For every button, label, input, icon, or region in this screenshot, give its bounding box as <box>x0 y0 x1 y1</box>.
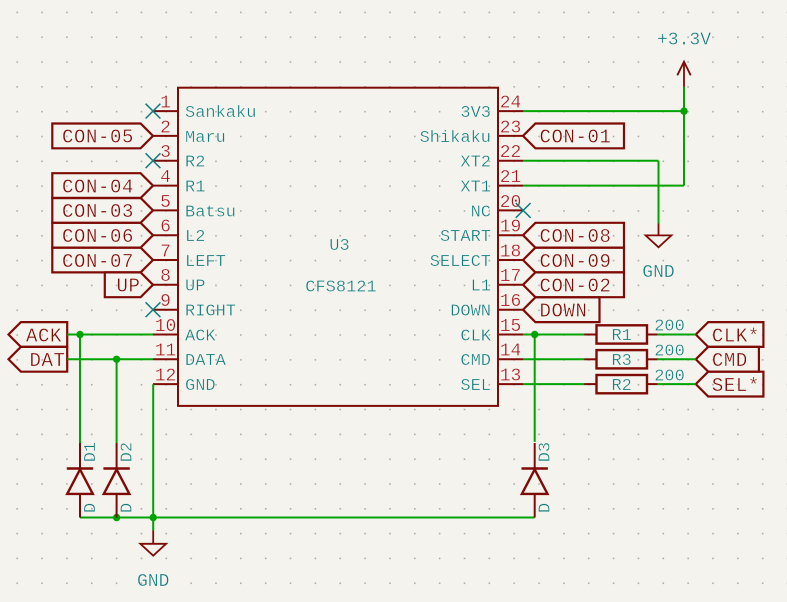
svg-text:4: 4 <box>160 168 171 188</box>
svg-text:GND: GND <box>642 263 674 283</box>
pin 19 (START) <box>440 218 523 248</box>
pin 23 (Shikaku) <box>420 118 523 148</box>
svg-text:21: 21 <box>500 168 522 188</box>
svg-text:R2: R2 <box>611 377 631 396</box>
no-connect pin 1 <box>146 104 161 119</box>
svg-text:L2: L2 <box>185 228 205 247</box>
wire R3 to CMD <box>657 358 696 360</box>
svg-text:7: 7 <box>160 242 171 262</box>
wire R2 to SEL* <box>657 383 696 385</box>
wire XT1 <box>523 185 684 187</box>
svg-text:Maru: Maru <box>185 129 226 148</box>
svg-text:GND: GND <box>185 377 216 396</box>
svg-text:200: 200 <box>654 343 685 362</box>
svg-text:CON-05: CON-05 <box>62 127 134 149</box>
svg-text:18: 18 <box>500 242 522 262</box>
pin 22 (XT2) <box>460 143 523 173</box>
global label CON-09 <box>523 248 624 273</box>
svg-text:D1: D1 <box>82 442 101 462</box>
svg-text:R1: R1 <box>185 179 205 198</box>
svg-text:17: 17 <box>500 267 522 287</box>
pin 16 (DOWN) <box>450 292 523 322</box>
wire CMD to R3 <box>523 358 585 360</box>
diode D2 <box>103 442 137 518</box>
diode D1 <box>67 442 101 518</box>
svg-text:1: 1 <box>160 94 171 114</box>
svg-text:CON-04: CON-04 <box>62 176 134 198</box>
svg-text:D: D <box>537 503 556 513</box>
wire GND stem <box>152 518 154 531</box>
svg-text:L1: L1 <box>471 278 491 297</box>
svg-text:R2: R2 <box>185 154 205 173</box>
svg-text:GND: GND <box>137 572 169 592</box>
wire ACK to D1 <box>79 335 81 444</box>
wire ACK <box>67 334 153 336</box>
pin 9 (RIGHT) <box>153 292 236 322</box>
svg-text:UP: UP <box>185 278 205 297</box>
svg-text:3V3: 3V3 <box>460 104 491 123</box>
svg-text:+3.3V: +3.3V <box>657 31 711 51</box>
power symbol +3.3V <box>657 31 711 87</box>
pin 18 (SELECT) <box>430 242 523 272</box>
wire 3V3 to +3.3V junction <box>523 110 684 112</box>
junction 3V3 <box>680 107 687 114</box>
svg-text:5: 5 <box>160 193 171 213</box>
pin 12 (GND) <box>153 367 216 397</box>
svg-text:CON-03: CON-03 <box>62 201 134 223</box>
diode D3 <box>522 442 556 518</box>
global label CON-04 <box>52 173 153 198</box>
no-connect pin 3 <box>146 153 161 168</box>
pin 20 (NC) <box>471 193 523 223</box>
svg-text:Shikaku: Shikaku <box>420 129 491 148</box>
pin 13 (SEL) <box>460 367 523 397</box>
svg-text:24: 24 <box>500 94 522 114</box>
pin 17 (L1) <box>471 267 523 297</box>
global label CON-03 <box>52 198 153 223</box>
pin 24 (3V3) <box>460 94 523 124</box>
pin 8 (UP) <box>153 267 205 297</box>
pin 4 (R1) <box>153 168 205 198</box>
svg-text:D3: D3 <box>537 442 556 462</box>
svg-text:9: 9 <box>160 292 171 312</box>
pin 7 (LEFT) <box>153 242 226 272</box>
wire XT2 to GND <box>658 161 660 224</box>
wire DAT to D2 <box>116 359 118 443</box>
svg-text:CON-07: CON-07 <box>62 251 134 273</box>
svg-text:XT2: XT2 <box>460 154 491 173</box>
wire CLK to R1 <box>523 334 585 336</box>
svg-text:D2: D2 <box>119 442 138 462</box>
svg-text:SEL: SEL <box>460 377 491 396</box>
svg-text:22: 22 <box>500 143 522 163</box>
svg-text:D: D <box>119 503 138 513</box>
pin 6 (L2) <box>153 218 205 248</box>
wire DAT <box>67 358 153 360</box>
pin 15 (CLK) <box>460 317 523 347</box>
svg-text:R1: R1 <box>611 327 631 346</box>
IC U3 CFS8121 body <box>178 88 498 406</box>
pin 14 (CMD) <box>460 342 523 372</box>
svg-text:6: 6 <box>160 218 171 238</box>
global label CON-06 <box>52 223 153 248</box>
svg-text:CLK*: CLK* <box>712 325 760 347</box>
svg-text:23: 23 <box>500 118 522 138</box>
svg-text:14: 14 <box>500 342 522 362</box>
svg-text:11: 11 <box>155 342 177 362</box>
resistor R3 200 <box>584 343 685 372</box>
svg-text:2: 2 <box>160 118 171 138</box>
global label CON-08 <box>523 223 624 248</box>
svg-text:200: 200 <box>654 318 685 337</box>
svg-text:13: 13 <box>500 367 522 387</box>
svg-text:SEL*: SEL* <box>712 375 760 397</box>
power symbol GND (bottom) <box>137 531 169 593</box>
resistor R2 200 <box>584 367 685 396</box>
svg-text:3: 3 <box>160 143 171 163</box>
junction CLK <box>531 331 538 338</box>
svg-text:200: 200 <box>654 367 685 386</box>
svg-text:RIGHT: RIGHT <box>185 303 236 322</box>
global label CMD <box>696 347 759 372</box>
svg-text:CMD: CMD <box>712 350 748 372</box>
junction ACK <box>76 331 83 338</box>
wire SEL to R2 <box>523 383 585 385</box>
global label CON-05 <box>52 124 153 149</box>
wire XT2 horizontal <box>523 160 659 162</box>
svg-text:15: 15 <box>500 317 522 337</box>
svg-text:Sankaku: Sankaku <box>185 104 256 123</box>
svg-text:CON-02: CON-02 <box>540 276 612 298</box>
svg-text:R3: R3 <box>611 352 631 371</box>
svg-text:12: 12 <box>155 367 177 387</box>
svg-text:UP: UP <box>117 276 141 298</box>
global label CON-02 <box>523 272 624 297</box>
svg-text:D: D <box>82 503 101 513</box>
global label CON-01 <box>523 124 624 149</box>
svg-text:20: 20 <box>500 193 522 213</box>
svg-text:XT1: XT1 <box>460 179 491 198</box>
no-connect pin 20 <box>516 203 531 218</box>
svg-text:16: 16 <box>500 292 522 312</box>
global label ACK <box>9 322 68 347</box>
svg-text:CMD: CMD <box>460 352 491 371</box>
svg-text:DOWN: DOWN <box>450 303 491 322</box>
wire +3.3V vertical <box>683 87 685 186</box>
svg-text:ACK: ACK <box>26 325 62 347</box>
svg-text:DAT: DAT <box>30 350 66 372</box>
pin 2 (Maru) <box>153 118 226 148</box>
no-connect pin 9 <box>146 302 161 317</box>
pin 5 (Batsu) <box>153 193 236 223</box>
wire CLK to D3 <box>534 335 536 442</box>
svg-text:CON-06: CON-06 <box>62 226 134 248</box>
pin 11 (DATA) <box>153 342 227 372</box>
svg-text:DOWN: DOWN <box>540 301 588 323</box>
global label DOWN <box>523 297 600 322</box>
svg-text:Batsu: Batsu <box>185 203 236 222</box>
svg-text:CLK: CLK <box>460 327 491 346</box>
junction D2 bottom <box>113 514 120 521</box>
pin 3 (R2) <box>153 143 205 173</box>
svg-text:CON-08: CON-08 <box>540 226 612 248</box>
svg-text:ACK: ACK <box>185 327 216 346</box>
svg-text:START: START <box>440 228 491 247</box>
global label CON-07 <box>52 248 153 273</box>
svg-text:8: 8 <box>160 267 171 287</box>
svg-text:DATA: DATA <box>185 352 227 371</box>
pin 21 (XT1) <box>460 168 523 198</box>
pin 10 (ACK) <box>153 317 216 347</box>
global label SEL* <box>696 372 764 397</box>
svg-text:CFS8121: CFS8121 <box>305 279 376 298</box>
wire bottom bus <box>80 517 535 519</box>
wire GND pin down <box>152 384 154 517</box>
svg-text:SELECT: SELECT <box>430 253 491 272</box>
svg-text:19: 19 <box>500 218 522 238</box>
svg-text:CON-01: CON-01 <box>540 127 612 149</box>
wire R1 to CLK* <box>657 334 696 336</box>
junction GND <box>150 514 157 521</box>
svg-text:LEFT: LEFT <box>185 253 226 272</box>
global label DAT <box>9 347 68 372</box>
resistor R1 200 <box>584 318 685 347</box>
junction DAT <box>113 356 120 363</box>
pin 1 (Sankaku) <box>153 94 256 124</box>
global label CLK* <box>696 322 764 347</box>
global label UP <box>105 272 153 297</box>
svg-text:U3: U3 <box>329 237 349 256</box>
svg-text:NC: NC <box>471 203 491 222</box>
svg-text:CON-09: CON-09 <box>540 251 612 273</box>
power symbol GND (right, at XT2) <box>642 224 674 284</box>
svg-text:10: 10 <box>155 317 177 337</box>
